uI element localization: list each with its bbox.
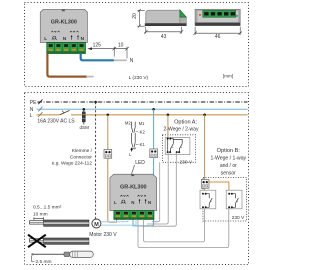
svg-text:10: 10 [118,42,124,48]
wire blue N conductor (front view) [81,53,114,60]
svg-text:M1: M1 [139,121,145,126]
wire motor lead M1 [101,219,128,221]
wire N bus [37,108,248,110]
schematic green terminal strip [114,211,154,220]
svg-text:2-Wege / 2-way: 2-Wege / 2-way [164,127,199,133]
schematic terminal symbol row [114,200,151,205]
wire L from Wago1 to device terminal L [108,158,117,222]
device GR-KL300 front view body [40,9,87,42]
svg-text:46: 46 [215,34,221,40]
wire L drop to Wago3 [204,115,206,180]
wire Wago3 to Option B switch 2 [209,182,229,191]
brown wire stripped tip [87,76,94,78]
junction dot on N bus (device feed) [152,108,155,111]
svg-text:LED: LED [135,160,145,166]
front view terminal symbol row [44,36,84,41]
wire L drop to Wago1 [107,115,109,150]
connector Wago3 (Option B) [201,180,209,189]
svg-text:L: L [114,200,117,205]
top view (46 mm) [195,9,240,25]
connector Wago2 (N) [150,149,158,158]
2.5mm dim [32,256,35,262]
svg-text:Klemme /: Klemme / [72,148,93,154]
svg-text:230 V: 230 V [232,215,245,221]
wire Option B switch 2 return loop [138,209,229,248]
dimension 125 / 10 [88,47,129,59]
svg-text:L: L [44,36,47,41]
junction dot on L bus (Option B feed) [203,114,206,117]
wire dSM drop [83,109,85,124]
svg-text:N: N [148,200,151,205]
wire Option B switch 1 return loop [144,209,205,242]
cable pictogram 2 crossed out [28,235,89,248]
Option A switch [165,138,190,155]
svg-text:[mm]: [mm] [223,74,233,79]
svg-text:125: 125 [93,42,102,48]
svg-text:M2: M2 [125,120,131,125]
svg-text:-K2: -K2 [138,129,145,134]
svg-text:L: L [30,113,33,119]
svg-text:16A 230V AC LS: 16A 230V AC LS [37,119,75,125]
dim 46 [193,27,242,35]
wire Option A return 1 to actuator input [147,153,168,224]
screwdriver [32,251,94,257]
Option B right switch [226,190,242,209]
svg-text:GR-KL300: GR-KL300 [51,20,77,26]
junction dot on PE bus [94,101,97,104]
motor M1 circle symbol [92,219,101,228]
svg-text:dSM: dSM [79,125,89,130]
blue wire stripped tip [114,59,127,61]
junction dot on N bus for dSM [83,108,86,111]
svg-text:N: N [130,58,134,64]
wire motor lead M2 [101,219,136,225]
wire L drop into Option A switch [167,115,169,140]
dim 20 vertical [138,9,145,28]
svg-text:10 mm: 10 mm [33,211,48,217]
svg-text:Option A:: Option A: [174,120,197,126]
wire brown L conductor (front view) [47,53,86,76]
svg-text:Motor 230 V: Motor 230 V [89,232,117,238]
top panel dotted frame [25,3,249,87]
wire Wago3 to Option B switch 1 [204,188,206,190]
wire PE dashed drop to motor [95,102,97,219]
device GR-KL300 schematic body [110,174,157,210]
wire PE bus [38,101,248,103]
wire Option A return 2 to actuator input [142,153,176,227]
junction dot on L bus (Option A feed) [167,114,170,117]
junction dot on L bus (device feed) [107,114,110,117]
svg-text:1-Wege / 1-way: 1-Wege / 1-way [211,156,247,162]
svg-text:20: 20 [132,13,138,19]
dim 43 [144,27,183,34]
svg-text:M: M [94,222,99,228]
svg-text:sensor: sensor [221,170,236,176]
svg-text:-K1: -K1 [138,142,145,147]
10mm dim [34,217,44,220]
svg-text:PE: PE [30,100,37,106]
svg-text:Connector: Connector [70,154,93,160]
front view green terminal strip [47,43,86,54]
Option B left switch [200,190,216,209]
svg-text:2.5 mm: 2.5 mm [36,259,52,265]
svg-text:N: N [131,200,134,205]
Option A dotted box [162,135,195,163]
svg-text:43: 43 [161,34,167,40]
svg-text:GR-KL300: GR-KL300 [120,185,147,191]
wire auxiliary return right of device [152,162,160,222]
side view (43 mm) [145,10,187,26]
svg-text:230 V: 230 V [180,159,193,165]
svg-text:L (230 V): L (230 V) [129,75,149,81]
Option B dotted box [203,178,247,222]
svg-text:and / or: and / or [220,163,237,169]
circuit breaker LS contact [60,110,70,114]
wire N from Wago2 to device terminal N [133,158,154,226]
N start tick [38,107,42,112]
cable pictogram 1 [30,220,89,226]
bottom panel dotted frame [25,93,249,265]
fuse dSM body [82,112,86,123]
PE start tick [38,99,42,104]
svg-text:0.5...1.5 mm²: 0.5...1.5 mm² [33,204,62,210]
connector Wago1 (L) [104,150,112,159]
wire L bus [37,114,60,116]
svg-text:e.g. Wago 224-112: e.g. Wago 224-112 [52,161,93,167]
svg-text:Option B:: Option B: [217,148,241,154]
wire N drop to Wago2 [153,109,155,149]
L start tick [38,112,42,117]
internal contact ladder M1/M2 K1/K2 [125,120,146,156]
